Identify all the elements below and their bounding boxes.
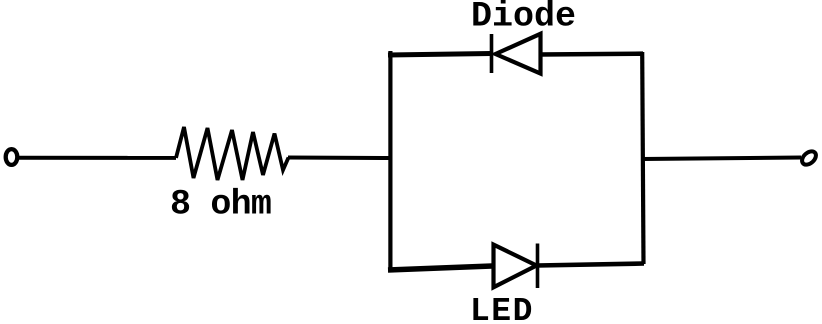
svg-text:LED: LED xyxy=(470,293,534,324)
svg-text:8 ohm: 8 ohm xyxy=(170,185,271,225)
svg-text:Diode: Diode xyxy=(471,0,576,37)
